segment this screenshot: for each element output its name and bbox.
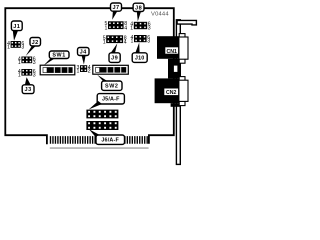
connector CN2 body: [155, 78, 181, 103]
jumper J9: [103, 35, 127, 45]
label CN1: [165, 47, 179, 55]
callout J9: [109, 43, 120, 62]
svg-text:1: 1: [7, 44, 10, 50]
jumper J1: [7, 41, 24, 51]
svg-text:3: 3: [147, 39, 150, 45]
svg-text:1: 1: [131, 39, 134, 45]
dip switch SW2: [93, 65, 129, 74]
svg-text:1: 1: [18, 60, 21, 66]
svg-text:J5/A-F: J5/A-F: [102, 97, 120, 103]
callout J3: [22, 77, 34, 93]
jumper J3: [18, 69, 36, 79]
svg-text:4: 4: [124, 25, 127, 31]
svg-text:SW1: SW1: [52, 53, 65, 59]
callout J5/A-F: [89, 94, 125, 110]
jumper J2: [18, 56, 36, 66]
callout SW2: [97, 75, 122, 91]
board outline: [5, 8, 174, 144]
svg-text:3: 3: [33, 72, 36, 78]
callout J6/A-F: [89, 129, 125, 144]
svg-text:1: 1: [18, 72, 21, 78]
jumper J4: [77, 65, 91, 75]
svg-text:1: 1: [103, 39, 106, 45]
svg-text:J9: J9: [111, 56, 118, 62]
svg-text:V0444: V0444: [151, 11, 169, 17]
jumper field J5 row A-F: [86, 110, 118, 119]
svg-text:1: 1: [77, 69, 80, 75]
svg-text:4: 4: [124, 39, 127, 45]
CN2 shell through bracket: [179, 77, 188, 106]
CN1 shell through bracket: [179, 34, 188, 64]
jumper J10: [131, 35, 151, 45]
svg-text:J10: J10: [135, 56, 145, 62]
jumper J8: [130, 22, 150, 32]
svg-text:1: 1: [130, 25, 133, 31]
svg-text:SW2: SW2: [105, 84, 118, 90]
svg-text:J3: J3: [25, 87, 32, 93]
svg-text:J6/A-F: J6/A-F: [101, 138, 119, 144]
svg-text:J7: J7: [112, 5, 119, 11]
svg-text:2: 2: [88, 69, 91, 75]
callout J2: [26, 38, 41, 57]
svg-text:3: 3: [33, 60, 36, 66]
svg-text:CN2: CN2: [166, 90, 176, 96]
callout J7: [111, 3, 122, 20]
stub below CN2: [171, 103, 180, 107]
svg-text:3: 3: [148, 25, 151, 31]
bracket notch between connectors: [174, 66, 178, 72]
wire column between CN1 and CN2: [168, 59, 180, 79]
svg-text:J2: J2: [32, 40, 39, 46]
jumper field J6 row A-F: [86, 121, 118, 130]
connector CN1 body: [157, 36, 180, 59]
callout SW1: [43, 51, 69, 66]
svg-text:J8: J8: [135, 5, 142, 11]
callout J10: [132, 43, 147, 63]
label CN2: [164, 88, 179, 96]
svg-text:J1: J1: [13, 24, 20, 30]
svg-text:CN1: CN1: [167, 49, 177, 55]
jumper J7: [105, 21, 128, 31]
dip switch SW1: [40, 65, 75, 75]
callout J4: [78, 48, 90, 65]
edge connector fingers: [50, 136, 149, 149]
svg-text:1: 1: [105, 25, 108, 31]
callout J8: [133, 3, 144, 21]
svg-text:J4: J4: [80, 50, 88, 56]
svg-text:3: 3: [21, 44, 24, 50]
mounting bracket: [176, 20, 196, 165]
callout J1: [11, 21, 22, 41]
scan id V0444: [151, 11, 169, 17]
